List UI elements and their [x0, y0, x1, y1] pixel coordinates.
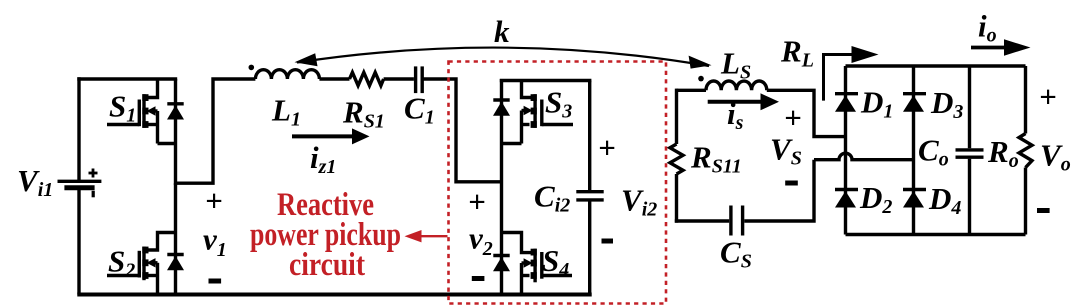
- svg-text:D3: D3: [930, 85, 963, 123]
- S2 drain stub: [147, 233, 176, 251]
- svg-text:Vo: Vo: [1040, 138, 1071, 176]
- S4 source vertical: [520, 263, 523, 295]
- svg-text:+: +: [784, 100, 802, 135]
- diode D4 cathode bar: [903, 188, 926, 191]
- S4 body line: [522, 261, 528, 264]
- red annotation arrow: [420, 235, 448, 237]
- svg-text:CS: CS: [720, 235, 752, 273]
- wire LS to VS corner: [767, 90, 846, 136]
- S1 diode cathode bar: [167, 102, 183, 105]
- S3 diode triangle: [493, 102, 510, 116]
- S2 source vertical: [156, 263, 159, 295]
- S3 jog to branch: [502, 142, 522, 145]
- svg-text:Vi2: Vi2: [621, 183, 657, 221]
- red dashed pickup box: [449, 62, 667, 304]
- battery plus sign: [89, 169, 98, 198]
- S2 diode triangle: [167, 256, 184, 270]
- S1 gate bar: [138, 100, 141, 127]
- wire inverter midpoint to primary loop: [176, 79, 256, 183]
- coupling arc k: [297, 48, 709, 66]
- label - of v1: [209, 279, 222, 284]
- k arc right arrowhead: [689, 56, 712, 69]
- S1 body arrow: [147, 106, 156, 115]
- svg-text:Vi1: Vi1: [17, 163, 53, 201]
- current arrow i_s: [708, 100, 762, 104]
- S2 body line: [152, 261, 158, 264]
- RL annotation arrow: [824, 46, 879, 101]
- svg-text:+: +: [598, 130, 616, 165]
- wire RS11 to bottom: [675, 174, 678, 223]
- S4 gate lead: [542, 274, 572, 277]
- S2 channel nubs: [142, 247, 148, 254]
- S2 channel bar: [142, 247, 145, 281]
- S1 source stub: [147, 123, 158, 126]
- svg-text:C1: C1: [404, 91, 435, 129]
- S1 diode triangle: [167, 105, 184, 119]
- S3 body line: [522, 109, 528, 112]
- S1 source jog to branch: [158, 142, 176, 145]
- battery V_i1 top plate: [58, 180, 102, 183]
- resistor RS11: [670, 144, 683, 174]
- svg-text:S4: S4: [542, 243, 569, 281]
- diode D3 cathode bar: [903, 92, 926, 95]
- inductor L1: [255, 70, 349, 79]
- svg-text:iz1: iz1: [310, 140, 336, 178]
- S4 diode triangle: [493, 257, 510, 271]
- rectifier bridge rails: [835, 66, 1032, 235]
- wire left rail bottom: [77, 189, 80, 295]
- wire C1 into pickup box: [422, 79, 500, 182]
- S2 branch vertical with body diode: [167, 183, 183, 294]
- svg-text:io: io: [978, 9, 997, 47]
- wire CS to right corner: [744, 160, 814, 221]
- S3 channel bar: [533, 94, 536, 128]
- wire inverter top: [77, 77, 177, 80]
- wire RS1 to C1: [384, 77, 414, 80]
- S3 drain stub: [522, 81, 535, 98]
- svg-text:RS11: RS11: [690, 140, 742, 178]
- svg-text:S2: S2: [108, 244, 135, 282]
- S3 diode cathode bar: [493, 98, 509, 101]
- S3 gate lead: [542, 123, 573, 126]
- LS winding dot: [698, 76, 704, 82]
- S4 channel bar: [533, 249, 536, 283]
- label - of VS: [785, 181, 798, 186]
- Ro branch with resistor: [1024, 66, 1027, 134]
- pickup branch vertical (S3/S4 leg): [500, 79, 592, 295]
- svg-text:v1: v1: [203, 222, 227, 262]
- diode D2 triangle: [835, 191, 856, 208]
- transistor S4: [493, 233, 572, 295]
- pickup resonant loop wires: [670, 81, 914, 236]
- label - of Vo: [1037, 208, 1050, 213]
- S4 drain stub: [502, 233, 535, 253]
- label - of v2: [472, 276, 485, 281]
- S1 drain stub: [147, 79, 158, 98]
- S2 gate bar: [138, 251, 141, 278]
- wire bridge top: [846, 64, 1026, 67]
- svg-text:Ci2: Ci2: [534, 179, 570, 217]
- wire left rail top: [77, 77, 80, 180]
- svg-text:D2: D2: [859, 180, 892, 218]
- wire bridge bottom: [846, 233, 1026, 236]
- svg-text:LS: LS: [720, 46, 751, 84]
- S3 source stub: [522, 123, 530, 126]
- wire L1 to RS1: [319, 77, 349, 80]
- capacitor C1: [416, 66, 500, 181]
- wire top with LS start: [677, 89, 707, 92]
- current arrow i_z1: [292, 128, 370, 144]
- svg-text:VS: VS: [770, 132, 802, 170]
- S4 diode cathode bar: [493, 254, 509, 257]
- S3 gate bar: [540, 100, 543, 127]
- svg-text:k: k: [494, 14, 510, 49]
- S2 diode cathode bar: [167, 253, 183, 256]
- wire loop top left: [675, 89, 678, 144]
- svg-text:+: +: [1039, 79, 1057, 114]
- S2 gate lead: [107, 274, 139, 277]
- S2 body arrow: [147, 258, 156, 267]
- svg-text:RS1: RS1: [342, 95, 385, 133]
- svg-text:Ro: Ro: [987, 134, 1019, 172]
- S1 branch vertical with body diode: [167, 79, 183, 185]
- S1 gate lead: [107, 123, 139, 126]
- S4 source stub: [522, 274, 530, 277]
- svg-text:+: +: [468, 184, 486, 219]
- S4 body arrow: [524, 258, 533, 267]
- k arc left arrowhead: [295, 53, 318, 66]
- diode D4 triangle: [903, 191, 924, 208]
- capacitor Co branch: [968, 66, 971, 148]
- wire box top: [500, 79, 592, 82]
- S1 body line: [152, 109, 158, 112]
- S1 channel bar: [142, 94, 145, 128]
- svg-text:circuit: circuit: [289, 247, 365, 283]
- S3 body arrow: [524, 106, 533, 115]
- capacitor CS: [729, 206, 732, 236]
- diode D1 cathode bar: [835, 92, 858, 95]
- diode D3 triangle: [903, 95, 924, 112]
- svg-text:S3: S3: [545, 85, 572, 123]
- battery V_i1 bottom plate: [64, 185, 94, 190]
- svg-text:S1: S1: [109, 89, 136, 127]
- S3 source vertical: [520, 111, 523, 144]
- D3/D4 branch vertical: [912, 66, 915, 235]
- S2 source stub: [147, 274, 158, 277]
- L1 winding dot: [249, 65, 255, 71]
- svg-text:v2: v2: [469, 221, 493, 261]
- svg-text:RL: RL: [780, 34, 814, 72]
- transistor S1: [107, 79, 176, 144]
- D1/D2 branch vertical: [844, 66, 847, 235]
- S4 gate bar: [540, 252, 543, 279]
- current arrow i_o: [971, 46, 1006, 50]
- label - of Vi2: [602, 239, 614, 244]
- wire bottom to CS: [675, 219, 729, 222]
- svg-text:D4: D4: [928, 181, 961, 219]
- resistor RS1: [350, 72, 414, 85]
- wire common bottom rail: [77, 293, 591, 297]
- svg-text:L1: L1: [271, 93, 301, 131]
- S3 channel nubs: [531, 94, 537, 101]
- inductor LS: [706, 81, 767, 90]
- wire VS minus with hop to D3/D4: [814, 153, 914, 160]
- diode D2 cathode bar: [835, 188, 858, 191]
- svg-text:D1: D1: [860, 85, 893, 123]
- S1 channel nubs: [142, 94, 148, 101]
- svg-text:+: +: [205, 183, 223, 218]
- transistor S3: [493, 81, 573, 144]
- svg-text:Co: Co: [918, 133, 949, 171]
- transistor S2: [107, 233, 176, 295]
- S1 source vertical: [156, 111, 159, 144]
- battery minus tick: [92, 191, 95, 198]
- diode D1 triangle: [835, 95, 856, 112]
- capacitor Ci2 branch: [576, 81, 603, 295]
- S4 channel nubs: [531, 249, 537, 256]
